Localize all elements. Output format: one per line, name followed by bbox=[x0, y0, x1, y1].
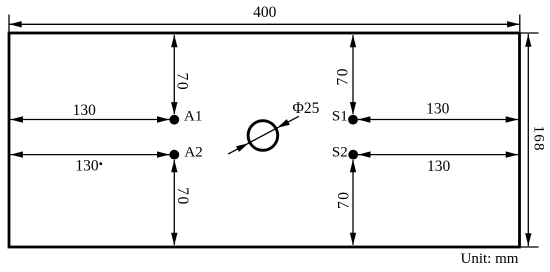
extension line bottom of 168 dimension bbox=[521, 246, 539, 248]
svg-text:70: 70 bbox=[174, 73, 191, 92]
arrowhead 130-A1 left bbox=[10, 116, 23, 122]
dimension line 70 below S2 bbox=[352, 160, 354, 245]
leader arrowhead lower-left bbox=[236, 143, 249, 152]
dimension line 70 above A1 bbox=[173, 35, 175, 114]
arrowhead 70-S2 bottom bbox=[350, 233, 356, 246]
point S1 bbox=[348, 115, 358, 125]
stray middle dot after 130-A2 label bbox=[99, 162, 102, 165]
svg-text:S2: S2 bbox=[332, 144, 348, 160]
point S2 bbox=[348, 150, 358, 160]
arrowhead 70-S1 bottom bbox=[350, 102, 356, 115]
arrowhead 168 top bbox=[525, 34, 531, 47]
arrowhead 130-S1 right bbox=[506, 116, 519, 122]
extension line right of 400 dimension bbox=[519, 15, 521, 32]
arrowhead 70-A1 top bbox=[171, 35, 177, 48]
dimension line 400 bbox=[9, 23, 519, 25]
point A2 bbox=[169, 150, 179, 160]
arrowhead 168 bottom bbox=[525, 233, 531, 246]
svg-text:130: 130 bbox=[75, 157, 99, 174]
extension line left of 400 dimension bbox=[8, 15, 10, 32]
leader line through hole bbox=[228, 116, 299, 154]
svg-text:A2: A2 bbox=[184, 145, 202, 161]
svg-text:A1: A1 bbox=[184, 108, 202, 124]
svg-text:70: 70 bbox=[334, 67, 351, 86]
dimension line 130 to S2 bbox=[358, 154, 518, 156]
arrowhead 130-A2 left bbox=[10, 151, 23, 157]
svg-text:70: 70 bbox=[174, 187, 191, 206]
svg-text:168: 168 bbox=[531, 126, 547, 152]
svg-text:70: 70 bbox=[336, 190, 353, 209]
arrowhead 70-A2 bottom bbox=[171, 233, 177, 246]
arrowhead 130-S2 left bbox=[358, 151, 371, 157]
arrowhead 130-A1 right bbox=[157, 116, 170, 122]
svg-text:130: 130 bbox=[426, 101, 450, 118]
dimension line 130 to A2 bbox=[10, 154, 169, 156]
arrowhead 130-S2 right bbox=[506, 151, 519, 157]
leader arrowhead upper-right bbox=[277, 119, 290, 128]
arrowhead 400 left bbox=[9, 21, 22, 27]
svg-text:130: 130 bbox=[73, 102, 97, 119]
arrowhead 70-A2 top bbox=[171, 160, 177, 173]
svg-text:Φ25: Φ25 bbox=[293, 100, 320, 117]
dimension line 130 to S1 bbox=[358, 119, 518, 121]
extension line top of 168 dimension bbox=[521, 32, 539, 34]
plate outline (400x168 rectangle) bbox=[9, 33, 520, 247]
svg-text:S1: S1 bbox=[332, 109, 348, 125]
dimension line 168 bbox=[527, 34, 529, 246]
svg-text:400: 400 bbox=[253, 4, 277, 21]
point A1 bbox=[169, 115, 179, 125]
arrowhead 70-S1 top bbox=[350, 35, 356, 48]
arrowhead 130-A2 right bbox=[157, 151, 170, 157]
svg-text:Unit: mm: Unit: mm bbox=[461, 251, 519, 267]
arrowhead 130-S1 left bbox=[358, 116, 371, 122]
dimension line 130 to A1 bbox=[10, 119, 169, 121]
hole circle diameter 25 bbox=[248, 121, 278, 151]
arrowhead 70-A1 bottom bbox=[171, 102, 177, 115]
arrowhead 70-S2 top bbox=[350, 160, 356, 173]
svg-text:130: 130 bbox=[427, 158, 451, 175]
dimension line 70 above S1 bbox=[352, 35, 354, 114]
arrowhead 400 right bbox=[507, 21, 519, 27]
dimension line 70 below A2 bbox=[173, 160, 175, 245]
